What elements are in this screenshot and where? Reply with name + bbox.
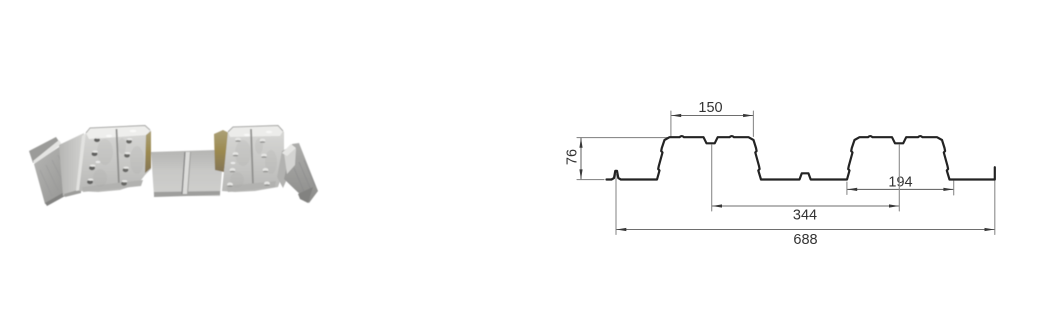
photo: left end lip bright top ridge [33,140,62,165]
dimension 344 arrows [712,204,722,207]
dimension 344 line [712,205,898,207]
photo: left end face streaks [40,155,69,196]
dimension 194 line [848,188,954,190]
photo: right end outer face [284,143,318,203]
extension line: 194 left [846,182,848,195]
dimension 76 arrows [579,138,582,148]
extension line: 150 left [670,111,672,137]
photo: rib 2 right slope dimples [260,139,270,186]
extension line: 194 right [953,181,955,195]
photo: rib 2 left tan sliver [214,130,229,172]
svg-text:76: 76 [565,149,581,165]
photo: rib 1 mottling [93,138,144,187]
extension line: 76 bottom [577,179,604,181]
photo: rib 1 left bottom curl highlight [76,133,86,191]
photo: right end face streaks [294,160,315,194]
dimension 150 line [672,115,753,117]
photo: right end bottom shadow [298,187,313,203]
photo: left end bottom edge shadow [45,186,76,206]
photo: rib 2 centre groove [251,129,253,185]
profile outline of decking cross-section [607,136,995,179]
dimension 688 arrows [616,228,626,231]
photo: left end lip outer dark band [29,137,60,163]
photo: rib 2 left slope dimples [227,138,241,187]
photo: rib 2 body [222,125,284,192]
photo: rib 1 bottom cut band [82,180,143,192]
svg-text:150: 150 [698,100,722,116]
extension line: 344 left (from rib1 notch) [711,145,713,211]
photo: valley 2 stiffener ridge [182,152,191,194]
svg-text:344: 344 [793,208,817,224]
photo: right end lip bright face [284,145,296,174]
dimension 76 vertical line [580,138,582,179]
svg-text:194: 194 [888,175,912,191]
photo: valley 2 front edge [154,191,220,197]
photo: rib 1 right slope holes [121,139,132,185]
photo: right valley floor [277,148,292,188]
photo: valley 2 floor [151,150,222,196]
extension line: 344 right (from rib2 notch) [898,145,900,211]
photo: rib 1 left slope holes [87,138,100,184]
photo: rib 1 body [79,125,151,192]
dimension 150 arrows [671,114,681,117]
photo: valley 1 front edge [64,189,81,197]
photo: rib 1 right tan sliver [145,131,151,173]
extension line: 688 right (from right lip) [994,168,996,235]
dimension 688 line [617,229,995,231]
photo: left end front face [34,145,75,204]
extension line: 76 top (flange level) [577,137,667,139]
photo: rib 1 centre groove [117,129,120,186]
photo: rib 2 top rim highlight [228,125,283,137]
extension line: 150 right [752,111,754,137]
photo: rib 2 bottom cut band [226,181,276,192]
extension line: 688 left (from left end bump) [615,174,617,235]
dimension 194 arrows [847,188,857,191]
photo: rib 2 mottling [230,138,277,188]
svg-text:688: 688 [793,232,817,248]
photo: rib 1 top rim highlight [86,125,150,139]
photo: valley 1 floor [59,133,84,196]
photo: rib 1 top sheet edge [86,126,150,134]
photo: rib 2 top sheet edge [228,126,283,133]
photo: right end lip top rim [282,144,296,156]
